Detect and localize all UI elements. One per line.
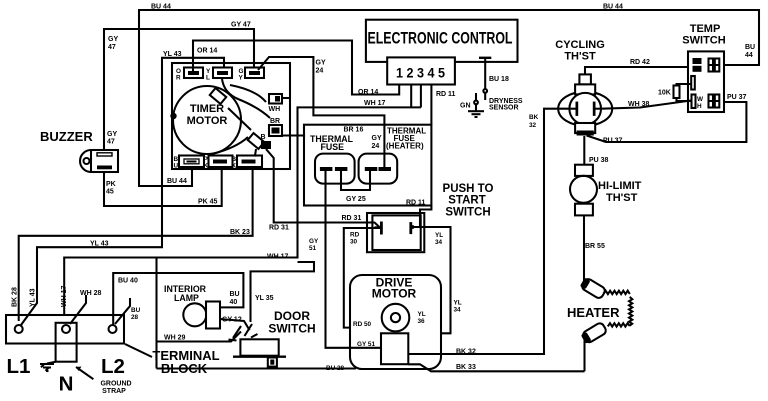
cycling thermostat TH1 bbox=[555, 39, 612, 136]
svg-text:36: 36 bbox=[418, 318, 426, 325]
wire RD42 control-to-tempswitch bbox=[585, 59, 688, 74]
svg-text:ELECTRONIC CONTROL: ELECTRONIC CONTROL bbox=[368, 29, 513, 48]
svg-text:RD 11: RD 11 bbox=[436, 91, 456, 98]
svg-text:BU: BU bbox=[230, 291, 240, 298]
svg-text:WH 17: WH 17 bbox=[61, 286, 68, 308]
svg-text:OR 14: OR 14 bbox=[358, 89, 378, 96]
svg-text:BU: BU bbox=[131, 307, 141, 314]
wire PU37 cycling-to-tempswitch bbox=[587, 94, 747, 145]
svg-text:SWITCH: SWITCH bbox=[445, 207, 490, 219]
svg-text:30: 30 bbox=[350, 239, 358, 246]
svg-text:PU 37: PU 37 bbox=[727, 94, 747, 101]
wire BU40 L2-to-lamp bbox=[113, 273, 243, 325]
svg-text:H: H bbox=[697, 103, 702, 110]
svg-text:BU 40: BU 40 bbox=[118, 278, 138, 285]
svg-text:PU 37: PU 37 bbox=[603, 138, 623, 145]
wire RD30 pushstart-to-motor bbox=[344, 228, 381, 328]
svg-text:51: 51 bbox=[309, 245, 317, 252]
svg-text:GN: GN bbox=[460, 103, 471, 110]
wire WH38 cycling-to-tempswitch bbox=[601, 101, 691, 109]
svg-text:YL 43: YL 43 bbox=[163, 51, 182, 58]
svg-text:RD 42: RD 42 bbox=[630, 59, 650, 66]
svg-text:WH 17: WH 17 bbox=[364, 100, 386, 107]
svg-text:BR: BR bbox=[270, 118, 280, 125]
svg-text:L1: L1 bbox=[7, 355, 31, 378]
timer terminal BK bbox=[232, 156, 263, 170]
wire BK33 motor-to-heater bbox=[408, 364, 584, 371]
svg-text:BU 44: BU 44 bbox=[603, 4, 623, 11]
svg-text:BK 33: BK 33 bbox=[456, 364, 476, 371]
svg-text:24: 24 bbox=[372, 143, 380, 150]
heater HTR bbox=[567, 277, 632, 372]
svg-text:BU 44: BU 44 bbox=[151, 4, 171, 11]
svg-text:WH 28: WH 28 bbox=[80, 290, 102, 297]
svg-text:HEATER: HEATER bbox=[567, 305, 620, 320]
svg-text:BU: BU bbox=[745, 44, 755, 51]
svg-text:RD 50: RD 50 bbox=[353, 321, 372, 328]
timer terminal GY bbox=[239, 68, 265, 82]
svg-text:BK 23: BK 23 bbox=[230, 229, 250, 236]
ground (neutral strap) bbox=[40, 362, 56, 371]
svg-text:TH'ST: TH'ST bbox=[564, 51, 596, 63]
svg-text:STRAP: STRAP bbox=[102, 388, 126, 395]
svg-text:PK: PK bbox=[106, 181, 116, 188]
svg-text:TIMER: TIMER bbox=[190, 103, 224, 115]
svg-text:YL 43: YL 43 bbox=[30, 288, 37, 307]
svg-text:YL 43: YL 43 bbox=[90, 241, 109, 248]
svg-text:GY: GY bbox=[108, 36, 118, 43]
hi-limit thermostat TH2 bbox=[570, 165, 642, 216]
svg-text:YL: YL bbox=[435, 232, 443, 239]
svg-text:24: 24 bbox=[316, 68, 324, 75]
wire RD11 control-to-pushstart bbox=[406, 84, 456, 227]
svg-text:YL: YL bbox=[418, 311, 426, 318]
timer contact B bbox=[261, 134, 272, 149]
svg-text:K: K bbox=[232, 163, 237, 170]
svg-text:WH 38: WH 38 bbox=[628, 101, 650, 108]
timer terminal BU bbox=[174, 156, 205, 170]
svg-text:34: 34 bbox=[454, 307, 462, 314]
wire PU38 cycling-to-hilimit bbox=[584, 136, 608, 165]
wire YL43 timer-to-L1 bbox=[21, 51, 224, 325]
wire GY24 timer-to-heater-fuse bbox=[258, 57, 384, 168]
svg-text:SWITCH: SWITCH bbox=[682, 35, 725, 47]
svg-text:44: 44 bbox=[745, 52, 753, 59]
svg-text:BR 16: BR 16 bbox=[344, 127, 364, 134]
svg-text:32: 32 bbox=[529, 122, 537, 129]
svg-text:PU 38: PU 38 bbox=[589, 157, 609, 164]
svg-text:U: U bbox=[174, 163, 179, 170]
svg-text:BK: BK bbox=[529, 114, 539, 121]
wire WH28 N-stub bbox=[70, 290, 102, 324]
svg-text:RD: RD bbox=[350, 232, 360, 239]
wire RD31 timer-to-pushstart bbox=[266, 149, 381, 232]
svg-text:RD 31: RD 31 bbox=[269, 225, 289, 232]
timer contact WH bbox=[269, 94, 283, 113]
thermal fuse box bbox=[304, 125, 431, 206]
svg-text:GY 51: GY 51 bbox=[357, 341, 375, 348]
svg-text:GY: GY bbox=[107, 131, 117, 138]
svg-text:MOTOR: MOTOR bbox=[372, 287, 417, 301]
svg-text:L2: L2 bbox=[101, 355, 125, 378]
wire BR55 hilimit-to-heater bbox=[584, 215, 605, 281]
electronic control U1 bbox=[366, 20, 518, 85]
svg-text:28: 28 bbox=[131, 314, 139, 321]
svg-text:1 2 3 4 5: 1 2 3 4 5 bbox=[396, 65, 445, 81]
svg-text:GY: GY bbox=[316, 60, 326, 67]
svg-text:SENSOR: SENSOR bbox=[489, 105, 519, 112]
svg-text:R: R bbox=[176, 75, 181, 82]
svg-text:47: 47 bbox=[108, 44, 116, 51]
svg-text:BK 28: BK 28 bbox=[12, 287, 19, 307]
dryness sensor bbox=[460, 58, 523, 112]
wire BK28/BK23 L1-to-timer bbox=[12, 167, 253, 321]
svg-text:BU 44: BU 44 bbox=[167, 178, 187, 185]
svg-text:OR 14: OR 14 bbox=[197, 48, 217, 55]
svg-text:BR 55: BR 55 bbox=[585, 243, 605, 250]
svg-text:FUSE: FUSE bbox=[321, 142, 345, 152]
wire BU44 timer-to-temp-switch bbox=[139, 4, 759, 187]
timer terminal OR bbox=[176, 68, 203, 82]
wire BU28 L2-to-motor bbox=[115, 298, 356, 372]
wire YL35 doorswitch bbox=[251, 262, 315, 322]
svg-text:34: 34 bbox=[435, 239, 443, 246]
ground strap pointer bbox=[76, 367, 132, 396]
svg-text:Y: Y bbox=[239, 75, 244, 82]
resistor 10K bbox=[658, 84, 692, 101]
svg-text:WH: WH bbox=[269, 106, 281, 113]
push to start switch S1 bbox=[367, 183, 494, 252]
svg-text:GY: GY bbox=[309, 238, 319, 245]
wire BK32 cycling-to-motor bbox=[408, 109, 569, 356]
door switch S2 bbox=[229, 309, 316, 367]
svg-text:W: W bbox=[697, 96, 704, 103]
thermal fuse F1 bbox=[310, 134, 355, 184]
svg-text:BU 18: BU 18 bbox=[489, 76, 509, 83]
svg-text:WH 29: WH 29 bbox=[164, 335, 186, 342]
svg-text:45: 45 bbox=[106, 189, 114, 196]
svg-text:N: N bbox=[59, 373, 74, 396]
timer motor TM bbox=[170, 79, 270, 157]
timer contact BR bbox=[269, 118, 282, 136]
timer assembly box bbox=[172, 63, 290, 169]
wire WH17 neutral-run bbox=[61, 84, 421, 315]
svg-text:BLOCK: BLOCK bbox=[161, 361, 208, 376]
svg-text:10K: 10K bbox=[658, 90, 671, 97]
svg-text:47: 47 bbox=[107, 139, 115, 146]
svg-text:TEMP: TEMP bbox=[690, 23, 721, 35]
timer terminal YL bbox=[206, 68, 232, 82]
svg-text:CYCLING: CYCLING bbox=[555, 39, 605, 51]
terminal block pointer bbox=[125, 344, 220, 376]
wire OR14 timer-to-control bbox=[193, 41, 399, 97]
motor centrifugal switch bbox=[381, 333, 408, 364]
svg-text:BU 28: BU 28 bbox=[326, 365, 345, 372]
svg-text:PK 45: PK 45 bbox=[198, 199, 218, 206]
svg-text:L: L bbox=[206, 75, 210, 82]
svg-text:LAMP: LAMP bbox=[174, 293, 199, 303]
svg-text:GY: GY bbox=[372, 135, 382, 142]
thermal fuse (heater) F2 bbox=[359, 127, 427, 184]
terminal block TB bbox=[6, 315, 125, 396]
svg-text:YL 35: YL 35 bbox=[255, 295, 274, 302]
svg-text:GY 47: GY 47 bbox=[231, 22, 251, 29]
buzzer BZ bbox=[40, 129, 118, 172]
timer terminal PK bbox=[204, 156, 233, 170]
wire GY25 fuse-link bbox=[341, 171, 370, 203]
drive motor M1 bbox=[350, 275, 441, 369]
svg-text:TH'ST: TH'ST bbox=[606, 192, 638, 204]
svg-text:RD 31: RD 31 bbox=[342, 215, 362, 222]
wire PK45 buzzer-to-timer bbox=[104, 167, 222, 206]
timer cam contact 1 bbox=[210, 88, 227, 104]
svg-text:SWITCH: SWITCH bbox=[268, 322, 315, 336]
timer cam contact 2 bbox=[248, 133, 265, 149]
wire YL34 pushstart-to-motor bbox=[411, 225, 462, 333]
svg-text:PUSH TO: PUSH TO bbox=[443, 183, 494, 195]
svg-text:GROUND: GROUND bbox=[100, 381, 131, 388]
temp switch S3 bbox=[682, 23, 725, 112]
svg-text:BK 32: BK 32 bbox=[456, 349, 476, 356]
svg-text:BUZZER: BUZZER bbox=[40, 129, 93, 144]
svg-text:YL: YL bbox=[454, 300, 462, 307]
svg-text:WH 17: WH 17 bbox=[267, 254, 289, 261]
wire GY51 fuse-to-motor bbox=[309, 171, 381, 348]
svg-text:START: START bbox=[448, 195, 485, 207]
svg-text:HI-LIMIT: HI-LIMIT bbox=[598, 180, 642, 192]
svg-text:GY 25: GY 25 bbox=[346, 196, 366, 203]
svg-text:40: 40 bbox=[230, 299, 238, 306]
interior lamp DS1 bbox=[164, 284, 220, 329]
svg-text:GY 12: GY 12 bbox=[222, 317, 242, 324]
svg-text:MOTOR: MOTOR bbox=[187, 115, 228, 127]
wire WH29 lamp-neutral bbox=[157, 258, 242, 369]
wire GY12 lamp-to-door bbox=[220, 317, 250, 331]
ground (dryness sensor) bbox=[468, 93, 484, 117]
svg-text:(HEATER): (HEATER) bbox=[386, 142, 424, 151]
wire BR16 timer-to-fusebox bbox=[282, 125, 363, 136]
wire GY47 timer-to-buzzer bbox=[104, 22, 254, 151]
